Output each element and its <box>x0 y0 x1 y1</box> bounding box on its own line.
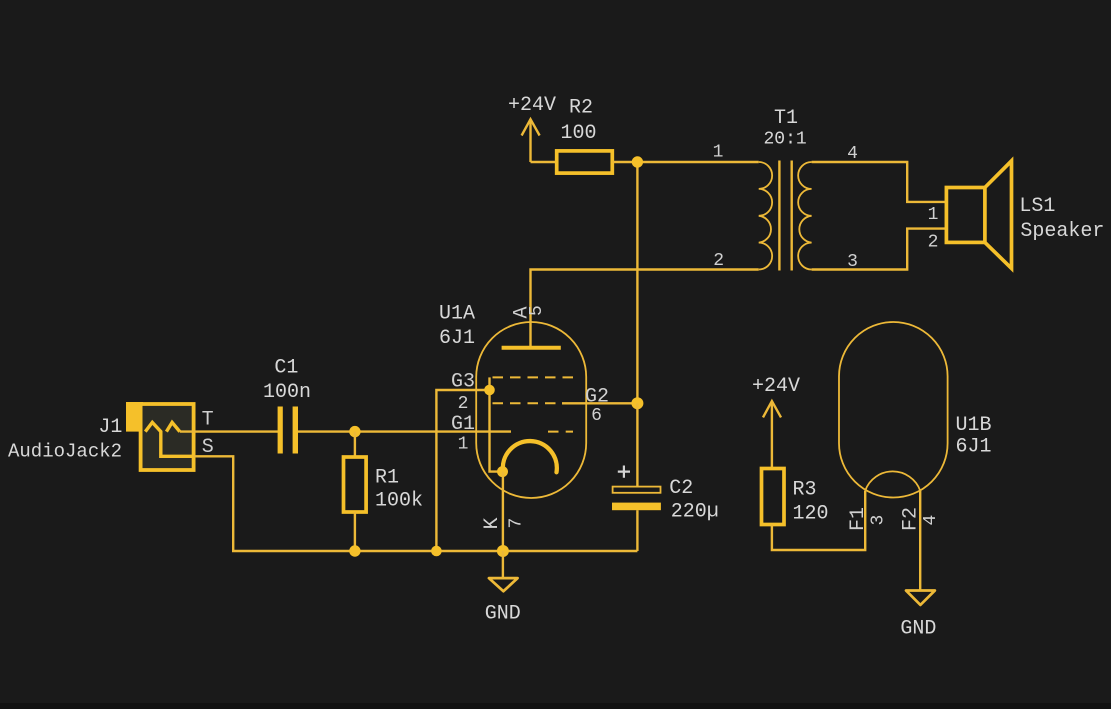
envelope <box>476 322 586 498</box>
anode plate <box>502 346 561 350</box>
svg-text:5: 5 <box>527 305 547 316</box>
tube U1B <box>839 322 992 531</box>
svg-text:1: 1 <box>458 435 469 455</box>
plus sign <box>618 466 630 478</box>
wire T1 pin4 to LS1 pin1 <box>812 162 947 202</box>
svg-text:2: 2 <box>458 394 469 414</box>
core <box>779 161 791 271</box>
ground GND (U1B) <box>900 591 936 641</box>
junction cathode <box>497 466 508 477</box>
wire G3 node <box>436 390 489 551</box>
svg-text:J1: J1 <box>98 416 122 439</box>
svg-text:GND: GND <box>900 618 936 641</box>
wire +24V to R2 <box>531 161 557 163</box>
G3 pin stub <box>488 377 490 390</box>
wire R3 to F1 <box>772 491 865 550</box>
svg-text:100: 100 <box>561 122 597 145</box>
svg-text:100n: 100n <box>263 381 311 404</box>
svg-text:+24V: +24V <box>752 375 800 398</box>
svg-text:100k: 100k <box>375 489 423 512</box>
cathode arc <box>503 441 557 472</box>
svg-text:1: 1 <box>928 205 939 225</box>
junction K/rail <box>497 545 509 557</box>
svg-text:U1A: U1A <box>439 302 475 325</box>
svg-text:6: 6 <box>591 406 602 426</box>
resistor R1 <box>344 457 424 512</box>
svg-text:Speaker: Speaker <box>1020 220 1104 243</box>
junction G2/C2 <box>631 397 643 409</box>
svg-text:220µ: 220µ <box>671 501 719 524</box>
svg-text:K: K <box>481 517 504 529</box>
wire G2 pin to node <box>562 402 637 404</box>
wire T1 pin3 to LS1 pin2 <box>812 229 947 270</box>
svg-text:120: 120 <box>793 503 829 526</box>
power flag +24V (right) <box>752 375 800 469</box>
wire T1 pin2 to anode <box>531 270 759 348</box>
svg-text:4: 4 <box>921 515 941 526</box>
junction at R2/T1 <box>632 156 643 167</box>
svg-text:C2: C2 <box>669 477 693 500</box>
wire K down to rail <box>502 472 504 551</box>
ring contact <box>166 422 179 431</box>
svg-text:T: T <box>202 409 214 432</box>
svg-text:20:1: 20:1 <box>764 130 807 150</box>
transformer T1 <box>713 107 858 272</box>
svg-text:C1: C1 <box>274 356 298 379</box>
wire junction down to R1 <box>354 432 356 457</box>
audio jack J1 <box>8 402 214 470</box>
grid G1 dashed <box>548 431 573 433</box>
junction rail x436 <box>431 546 442 557</box>
wire node to T1 pin 1 <box>637 161 758 163</box>
svg-text:T1: T1 <box>774 107 798 130</box>
svg-text:+24V: +24V <box>508 94 556 117</box>
svg-text:2: 2 <box>713 251 724 271</box>
resistor R3 <box>762 469 829 526</box>
svg-text:AudioJack2: AudioJack2 <box>8 441 122 463</box>
junction R1/rail <box>349 545 360 556</box>
svg-text:G1: G1 <box>451 413 475 436</box>
primary winding <box>759 162 772 270</box>
svg-text:R2: R2 <box>569 97 593 120</box>
wire G3 down to cathode <box>490 390 504 472</box>
svg-text:1: 1 <box>713 143 724 163</box>
svg-text:7: 7 <box>507 518 527 529</box>
secondary winding <box>798 162 811 270</box>
svg-text:6J1: 6J1 <box>439 327 475 350</box>
svg-text:2: 2 <box>928 233 939 253</box>
svg-text:3: 3 <box>869 515 889 526</box>
tube U1A <box>439 302 609 529</box>
junction C1/R1 <box>349 426 360 437</box>
wire J1 T to C1 <box>180 430 278 432</box>
svg-text:U1B: U1B <box>956 414 992 437</box>
capacitor C2 <box>612 403 719 551</box>
svg-text:R1: R1 <box>375 467 399 490</box>
svg-text:6J1: 6J1 <box>956 435 992 458</box>
grid G2 dashed <box>493 402 563 404</box>
envelope <box>839 322 948 498</box>
ground GND (U1A) <box>485 551 521 626</box>
wire C1 to G1 <box>298 430 511 432</box>
svg-text:LS1: LS1 <box>1019 195 1055 218</box>
tip contact <box>145 422 193 456</box>
wire F2 to ground <box>919 491 921 590</box>
junction G3 <box>484 385 495 396</box>
speaker LS1 <box>928 161 1105 269</box>
heater filament arc <box>865 471 920 490</box>
wire J1 S down to rail <box>194 456 638 551</box>
power flag +24V (left) <box>508 94 556 162</box>
svg-text:GND: GND <box>485 603 521 626</box>
svg-text:R3: R3 <box>793 479 817 502</box>
wire R1 to rail <box>354 512 356 551</box>
wire R2 to node <box>612 161 637 163</box>
svg-text:F1: F1 <box>847 507 870 531</box>
resistor R2 <box>557 97 613 174</box>
grid G3 dashed <box>493 376 575 378</box>
capacitor C1 <box>263 356 311 453</box>
wire node down to G2 node <box>636 162 638 403</box>
